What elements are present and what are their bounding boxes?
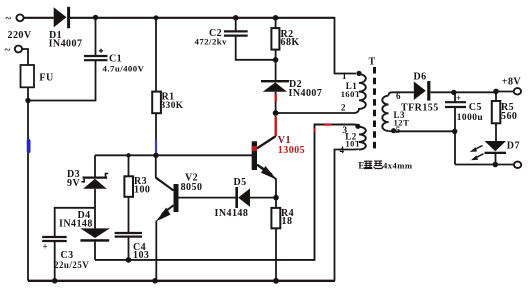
junction R4 bottom [273,278,279,284]
wire D3 to D4 [94,189,96,229]
junction D7 bottom [493,162,499,168]
transistor V1 [252,137,277,180]
junction V2 emitter bottom [152,278,158,284]
diode D5 [235,187,238,208]
node AC input terminal L [16,14,23,21]
LED D7 arrows [470,146,484,161]
svg-text:~: ~ [6,13,12,25]
wire D4 to feedback line [94,242,96,260]
transformer polarity dot pin5 [391,128,396,133]
wire D3 D4 column top [94,155,96,176]
junction base rail R1 [153,153,158,158]
svg-text:+8V: +8V [502,76,522,87]
svg-text:13005: 13005 [278,145,305,156]
wire C1 bottom return [28,60,96,101]
wire R2 junction to D2 [275,60,277,80]
diode D6 [414,81,426,100]
svg-text:IN4007: IN4007 [289,88,323,99]
capacitor C5 [445,102,466,107]
junction collector node [273,110,279,116]
junction base rail R3 [126,153,130,157]
wire AC N to fuse [22,49,28,65]
svg-text:4x4mm: 4x4mm [383,160,413,170]
junction C4 feedback [126,257,132,263]
svg-text:472/2kv: 472/2kv [195,36,228,46]
transistor V2 [156,178,179,222]
node +8V terminal [514,88,521,94]
wire R1 column [155,18,157,156]
wire C3 bottom lead [54,241,56,281]
wire C1 top lead [95,18,97,56]
wire C5 top lead [454,92,456,102]
diode D4 [80,228,109,238]
wire collector node down to V1 [257,113,276,148]
svg-text:~: ~ [5,44,11,56]
svg-text:100: 100 [134,184,150,195]
svg-text:103: 103 [133,250,149,261]
node AC input terminal N [15,46,22,53]
wire secondary top [389,92,497,95]
transformer T secondary L3 winding [382,96,388,131]
svg-text:D7: D7 [507,140,520,151]
wire red segment pin3 vertical [313,128,315,132]
junction C3 bottom [52,278,58,284]
wire blue segment fuse line [27,139,31,153]
capacitor C4 [115,233,142,237]
junction pin5 C5 [452,129,457,134]
wire fuse to bottom rail [27,87,29,280]
svg-text:D5: D5 [234,177,247,188]
wire R3 top lead [128,155,130,176]
transformer polarity dot pin3 [355,124,360,129]
wire red segment collector [275,117,277,136]
capacitor C1 [84,56,108,60]
wire R4 to bottom rail [275,228,277,280]
svg-text:68K: 68K [281,37,300,48]
svg-text:560: 560 [501,111,517,122]
resistor R3 [124,176,133,197]
wire R2 leads [275,18,277,60]
svg-text:+: + [456,93,462,103]
resistor R1 [152,92,161,114]
wire blue segment R1 lead [155,141,157,154]
wire C3 top lead [55,208,95,237]
wire V1 emitter to R4 [257,165,276,208]
svg-text:220V: 220V [8,30,32,41]
svg-text:T: T [369,57,376,68]
wire R5 leads [495,92,497,142]
wire secondary to +8V terminal [496,91,514,93]
wire bottom rail [28,280,335,282]
diode D1 [54,7,67,27]
resistor R4 [271,208,280,228]
svg-text:330K: 330K [161,101,184,111]
wire V2 emitter down [155,221,157,281]
svg-text:18: 18 [282,216,293,227]
capacitor C1 polarity mark [99,49,103,53]
capacitor C3 [42,237,66,241]
svg-text:22u/25V: 22u/25V [54,260,89,270]
wire top rail [24,17,335,19]
wire collector node to L1 pin2 [276,108,359,113]
svg-text:FU: FU [39,73,53,84]
transformer T primary L1 winding [359,74,366,109]
svg-text:D6: D6 [414,72,427,83]
wire D5 horizontal [179,197,277,199]
wire R3 to C4 [128,197,130,233]
svg-text:4.7u/400V: 4.7u/400V [103,64,145,74]
junction D5 R4 [273,195,279,201]
svg-text:+: + [43,242,49,252]
svg-text:1: 1 [342,71,347,81]
wire base rail node B [95,154,252,156]
capacitor C2 [224,31,248,35]
wire feedback line pin3 [95,125,359,260]
label core note CJK glyphs [364,161,383,169]
zener D3 [83,177,108,179]
wire secondary bottom rail [455,164,514,166]
svg-text:10T: 10T [346,139,361,148]
svg-text:TFR155: TFR155 [401,102,439,113]
junction D6 C5 [451,90,456,95]
svg-text:1000u: 1000u [457,113,483,123]
transformer polarity dot pin1 [356,71,361,76]
wire red segment pin3 horizontal [325,124,332,126]
svg-text:2: 2 [341,103,346,113]
wire L1 pin4 return [335,149,360,281]
junction R2 top [273,15,279,21]
junction C2 top [233,15,239,21]
svg-text:160T: 160T [341,90,361,99]
svg-text:IN4007: IN4007 [49,39,83,50]
wire top-right corner down to transformer pin 1 [335,17,357,74]
node output terminal [514,162,521,168]
fuse FU [21,65,35,87]
LED D7 [485,141,507,151]
resistor R5 [492,101,501,123]
svg-text:4: 4 [340,145,345,155]
svg-text:9V: 9V [67,178,80,189]
junction R1 top [154,15,159,20]
svg-text:C5: C5 [469,102,482,113]
wire D7 cathode lead [495,154,497,165]
transformer T feedback L2 winding [359,127,366,150]
wire C5 bottom lead [454,107,456,165]
svg-text:6: 6 [396,91,401,101]
wire red segment below D2 [275,94,277,102]
junction snubber node [273,57,279,63]
svg-text:5: 5 [396,125,401,135]
diode D2 [261,80,289,82]
wire D2 anode to collector node [275,92,277,113]
svg-text:IN4148: IN4148 [59,218,93,229]
junction R5 top [493,89,499,95]
junction C1 top [93,15,98,20]
transformer T core [373,67,376,150]
wire L3 pin5 [389,130,456,133]
resistor R2 [271,28,279,49]
svg-text:E: E [358,160,364,170]
wire C4 bottom lead [128,237,130,260]
svg-text:IN4148: IN4148 [215,208,249,219]
wire V2 collector [156,155,174,190]
svg-text:8050: 8050 [181,182,203,193]
junction fuse C1 [25,98,30,103]
wire C2 leads [236,18,276,60]
